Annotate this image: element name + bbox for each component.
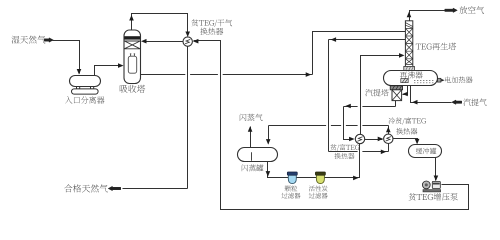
wire lean TEG down to HX2 [344, 107, 353, 140]
label 换热器 HX2 [335, 153, 355, 159]
wire HX3 to flash tank [269, 125, 389, 127]
activated carbon filter 活性炭过滤器 [315, 172, 325, 184]
pump 贫TEG增压泵 [422, 181, 440, 192]
absorber top dark band [124, 36, 140, 39]
wire flash tank to filters to HX2 [268, 144, 360, 178]
label 活性炭 [309, 186, 328, 192]
wire to sales gas [123, 188, 188, 190]
wire stripper bottom [395, 101, 397, 107]
wire dry gas down [187, 47, 189, 189]
label 电加热器 [445, 76, 473, 83]
reboiler internal element [401, 79, 435, 83]
stream arrow 湿天然气 [44, 38, 53, 42]
arrow into HX2 riser [353, 176, 359, 181]
buffer tank 缓冲罐 drum [409, 145, 442, 158]
label 冷贫/富TEG [388, 117, 426, 124]
wire down into flash tank [268, 126, 270, 144]
wire flash gas [250, 127, 252, 148]
label 入口分离器 [65, 96, 104, 103]
arrow out of HX3 top [386, 127, 391, 133]
arrow into absorber feed [118, 63, 124, 68]
wire HX2 to HX3 [365, 139, 383, 141]
arrow lean TEG [345, 104, 351, 109]
arrow dry gas up [129, 15, 134, 21]
label 贫/富TEG [330, 144, 359, 151]
label 吸收塔 [120, 85, 145, 93]
absorber internal distributor [128, 54, 136, 73]
label 闪蒸气 [240, 114, 263, 121]
label 贫TEG/干气 [191, 19, 232, 27]
arrow into buffer tank [415, 139, 420, 145]
arrow rich TEG [306, 72, 312, 77]
stripper 汽提塔 flange [390, 86, 402, 90]
wire lean TEG horizontal [344, 106, 396, 108]
arrow into stripper [402, 92, 408, 97]
particle filter 颗粒过滤器 [287, 172, 297, 184]
wire separator outlet to absorber [95, 66, 119, 76]
arrow into HX2 left [349, 137, 355, 142]
inlet separator 入口分离器 drum [70, 76, 101, 87]
wire buffer tank to pump [435, 158, 437, 181]
wire HX3 to buffer tank [394, 139, 418, 143]
stream arrow 合格天然气 [108, 186, 121, 190]
arrow flash tank outlet [266, 171, 271, 177]
electric heater 电加热器 symbol [438, 78, 445, 82]
label 颗粒 [285, 186, 298, 192]
label 汽提塔 [365, 89, 389, 96]
arrow into pump [434, 176, 439, 182]
label 过滤器 F1 [282, 193, 301, 199]
wire HX3 bottom riser [388, 144, 390, 152]
wire absorber overhead [132, 14, 188, 35]
stripper body [392, 90, 402, 101]
wire coil outlet horizontal [329, 39, 406, 41]
label 换热器 HX3 [396, 128, 417, 135]
absorber packing X [124, 41, 140, 49]
separator legs and skid base [72, 87, 99, 95]
arrow coil outlet [331, 37, 337, 42]
heat exchanger HX1 贫TEG/干气换热器 [183, 37, 192, 46]
wire to HX3 bottom [329, 151, 389, 153]
wire lean TEG to absorber [147, 41, 184, 43]
arrow regen feed [399, 53, 405, 58]
label 再沸器 [400, 71, 423, 78]
wire wet gas inlet [53, 41, 80, 74]
arrow flash gas up [248, 126, 253, 132]
stream arrow 放空气 [445, 8, 458, 12]
arrow vent up [407, 12, 412, 17]
arrow into HX1 right [193, 39, 199, 44]
absorber 吸收塔 column body [124, 30, 141, 84]
reboiler 再沸器 drum [384, 71, 438, 86]
label 汽提气 [463, 99, 486, 106]
label 贫TEG增压泵 [409, 193, 458, 201]
arrow into separator [77, 69, 82, 75]
regen column bottom flange [404, 66, 415, 70]
arrow stripping gas [412, 100, 418, 105]
wire stripping gas [411, 86, 452, 103]
flash tank internal weir [251, 152, 253, 161]
label TEG再生塔 [416, 43, 456, 50]
heat exchanger HX3 冷贫/富TEG换热器 [384, 134, 393, 143]
label 缓冲罐 [416, 148, 436, 154]
TEG regenerator column TEG再生塔 [405, 21, 412, 71]
arrow into absorber top [141, 39, 147, 44]
arrow into HX3 left [378, 137, 384, 142]
label 闪蒸罐 [242, 164, 264, 171]
wire rich TEG riser to coil [313, 32, 406, 75]
wire pump discharge loop [194, 41, 469, 210]
label 湿天然气 [12, 36, 46, 44]
wire regen vent [410, 11, 445, 21]
wire HX3 top riser [388, 126, 390, 135]
arrow into flash tank [266, 139, 271, 145]
wire reboiler to stripper [403, 86, 408, 95]
stream arrow 汽提气 [452, 100, 462, 104]
flash tank 闪蒸罐 drum [238, 148, 278, 162]
wire rich TEG horizontal [141, 74, 313, 76]
label 过滤器 F2 [309, 193, 328, 199]
label 合格天然气 [64, 184, 107, 192]
wire HX2 to regen feed [361, 56, 400, 135]
arrow into HX3 bottom [381, 150, 387, 155]
arrow into HX1 top [185, 32, 190, 38]
heat exchanger HX2 贫/富TEG换热器 [355, 134, 364, 143]
label 放空气 [460, 6, 485, 14]
wire coil outlet downcomer [328, 40, 330, 152]
label 换热器 HX1 [200, 28, 223, 35]
